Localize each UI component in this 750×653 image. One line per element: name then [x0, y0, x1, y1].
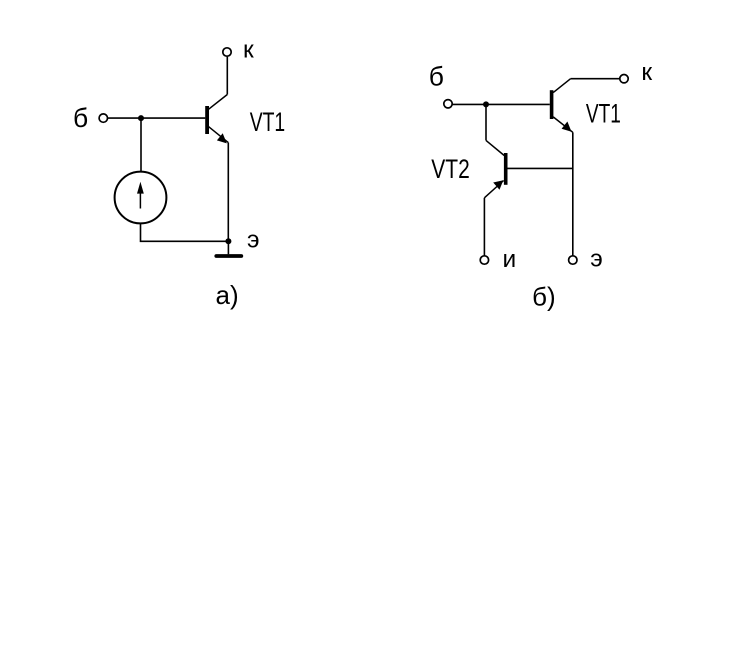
- transistor VT1 (circuit a): emitter diagonal: [209, 127, 229, 143]
- transistor VT1 (circuit b): collector diagonal: [553, 79, 570, 93]
- node: base junction dot (circuit b): [483, 101, 489, 107]
- wire: diagonal to VT2 collector: [486, 140, 504, 155]
- transistor VT2: base bar: [504, 153, 508, 185]
- terminal к circle (circuit a): [223, 48, 231, 56]
- transistor VT1 (circuit b): emitter arrow: [562, 122, 572, 132]
- wire: emitter vertical to э node: [227, 143, 229, 242]
- svg-text:к: к: [243, 36, 254, 63]
- current source I1 circle: [115, 172, 167, 224]
- transistor VT2: base wire to VT1 emitter line: [508, 167, 573, 169]
- svg-text:к: к: [641, 59, 652, 86]
- transistor VT2: emitter arrow (points into bar): [493, 180, 503, 190]
- svg-text:и: и: [503, 246, 517, 273]
- transistor VT1 (circuit b): base bar: [550, 90, 554, 119]
- svg-text:VT1: VT1: [250, 107, 286, 137]
- svg-text:VT1: VT1: [586, 98, 621, 128]
- terminal б circle (circuit b): [444, 100, 452, 108]
- svg-text:б): б): [532, 282, 556, 312]
- svg-text:б: б: [429, 62, 444, 92]
- wire: collector horizontal to к terminal (circuit b): [571, 78, 620, 80]
- node э junction dot (circuit a): [225, 238, 231, 244]
- wire: б terminal to VT1 base bar (circuit b): [453, 103, 550, 105]
- wire: VT2 emitter down to и terminal: [483, 198, 485, 256]
- node: base junction dot (circuit a): [138, 115, 144, 121]
- wire: current source bottom to emitter node: [141, 224, 229, 242]
- wire: junction down toward VT2: [485, 104, 487, 140]
- wire: э node to ground: [227, 241, 229, 254]
- terminal и circle: [480, 256, 488, 264]
- svg-text:а): а): [216, 280, 239, 310]
- svg-text:э: э: [247, 226, 260, 253]
- svg-text:б: б: [73, 103, 88, 133]
- transistor VT1 (circuit b): emitter diagonal: [553, 117, 573, 132]
- current source I1 arrow: [137, 182, 144, 209]
- transistor VT1 (circuit a): emitter arrow: [217, 133, 227, 143]
- svg-text:э: э: [590, 246, 603, 273]
- wire: VT1 emitter down to э terminal (circuit b): [572, 132, 574, 255]
- terminal э circle (circuit b): [569, 256, 577, 264]
- terminal б circle (circuit a): [99, 114, 107, 122]
- svg-text:VT2: VT2: [431, 154, 470, 184]
- wire: collector vertical to к terminal: [226, 57, 228, 95]
- terminal к circle (circuit b): [620, 75, 628, 83]
- ground symbol: [216, 254, 241, 258]
- transistor VT2: emitter diagonal: [484, 181, 503, 198]
- transistor VT1 (circuit a): collector diagonal: [209, 95, 228, 110]
- wire: б terminal to VT1 base bar: [108, 117, 206, 119]
- transistor VT1 (circuit a): base bar: [205, 106, 209, 134]
- wire: junction down to current source: [140, 118, 142, 171]
